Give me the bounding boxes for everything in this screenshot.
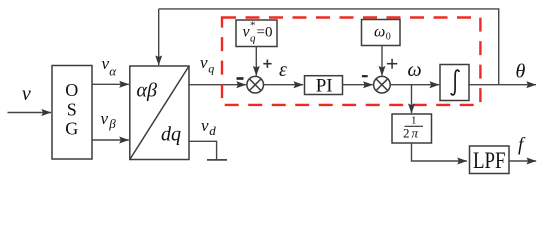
wire v_q — [189, 84, 246, 86]
svg-text:d: d — [209, 123, 216, 138]
wire f output — [509, 160, 536, 162]
svg-text:v: v — [22, 83, 31, 105]
block vq*=0 reference — [236, 20, 277, 47]
svg-text:α: α — [109, 63, 117, 78]
sign plus at S1 — [263, 60, 271, 68]
wire v_alpha — [92, 83, 129, 85]
wire v_beta — [92, 139, 129, 141]
svg-text:q: q — [208, 62, 214, 76]
ground — [207, 159, 227, 161]
wire branch omega down to 1/2pi — [411, 85, 413, 113]
wire v_d to ground — [189, 141, 217, 159]
node label v_alpha — [102, 54, 118, 79]
wire omega0 into S2 — [381, 46, 383, 76]
block LPF — [470, 146, 510, 174]
label vq*=0 — [243, 20, 273, 45]
red dashed boundary box — [222, 18, 480, 105]
svg-text:β: β — [108, 116, 116, 131]
svg-text:ω: ω — [374, 24, 385, 41]
svg-text:LPF: LPF — [473, 148, 506, 173]
block integrator — [440, 65, 469, 101]
svg-text:v: v — [101, 109, 109, 128]
wire theta feedback drop into transform block — [158, 9, 160, 65]
svg-text:π: π — [412, 125, 419, 140]
svg-text:S: S — [67, 99, 77, 119]
label 1/2pi fraction — [403, 115, 423, 141]
summing junction S1 — [247, 76, 264, 93]
svg-text:q: q — [250, 32, 256, 44]
wire PI to summing junction S2 — [343, 84, 373, 86]
svg-text:v: v — [200, 53, 208, 72]
block alphabeta-to-dq transform — [130, 66, 189, 160]
wire theta output — [469, 84, 536, 86]
svg-text:=0: =0 — [257, 25, 273, 41]
block PI controller — [305, 76, 343, 95]
block omega0 feedforward — [362, 20, 401, 46]
node label v_beta — [101, 109, 117, 131]
wire epsilon S1 to PI — [264, 84, 304, 86]
svg-text:G: G — [65, 119, 78, 139]
svg-text:ω: ω — [408, 59, 422, 81]
label omega0 — [374, 24, 391, 43]
summing junction S2 — [374, 76, 391, 93]
svg-text:0: 0 — [386, 32, 391, 43]
svg-text:O: O — [65, 80, 78, 100]
svg-text:dq: dq — [161, 123, 181, 145]
sign minus at S1 — [237, 77, 244, 80]
label OSG text — [65, 80, 78, 139]
wire v input — [8, 112, 52, 114]
svg-text:f: f — [518, 135, 526, 156]
wire omega S2 to integrator — [390, 84, 439, 86]
node label v_q — [200, 53, 214, 76]
sign plus at S2 — [387, 59, 397, 69]
svg-text:αβ: αβ — [137, 80, 157, 102]
svg-text:*: * — [250, 20, 256, 32]
svg-text:ε: ε — [279, 59, 287, 81]
svg-text:PI: PI — [316, 75, 333, 96]
node label v_d — [201, 116, 216, 138]
wire theta feedback to top — [159, 9, 499, 85]
sign minus at S2 — [362, 75, 368, 77]
block 1/2pi gain — [392, 114, 432, 143]
block OSG — [52, 66, 92, 160]
wire 1/2pi to LPF — [412, 143, 467, 161]
label integral sign — [451, 70, 459, 95]
svg-text:v: v — [201, 116, 209, 135]
svg-text:θ: θ — [515, 61, 525, 83]
svg-text:v: v — [102, 54, 110, 73]
svg-text:2: 2 — [403, 125, 410, 140]
wire vq* reference into summing junction S1 — [255, 47, 257, 76]
